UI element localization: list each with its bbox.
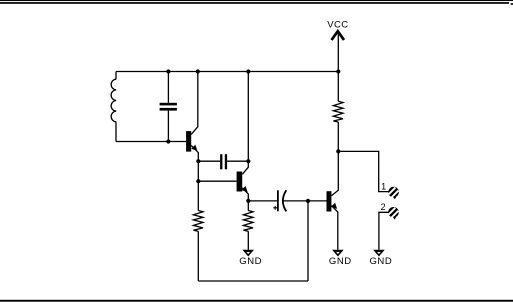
wire Q2 emitter to C3	[248, 200, 277, 202]
ground GND2	[329, 250, 352, 267]
node Q2 emitter junction	[246, 199, 250, 203]
transistor Q2 emitter arrow	[242, 187, 247, 192]
node Q1 collector rail	[196, 69, 200, 73]
wire J2 to ground	[379, 212, 389, 250]
transistor Q3 emitter arrow	[332, 204, 337, 209]
capacitor C2	[220, 154, 222, 169]
wire C2 right lead	[227, 160, 248, 162]
wire C1 bottom lead	[167, 111, 169, 142]
top border thick line	[0, 2, 509, 4]
wire Q1 emitter	[191, 145, 198, 161]
wire VCC stem	[337, 31, 339, 71]
capacitor C3 plus sign	[273, 206, 277, 210]
node Q1 emitter junction	[196, 159, 200, 163]
wire Q2 emitter	[242, 188, 248, 201]
node R3 bottom junction	[336, 149, 340, 153]
capacitor C3 positive plate	[277, 190, 279, 211]
wire R2 top lead	[247, 201, 249, 211]
wire top rail	[116, 71, 338, 73]
node Q3 base junction	[306, 199, 310, 203]
connector J2	[388, 207, 399, 220]
power VCC arrow	[332, 31, 345, 40]
node Q2 collector junction	[246, 159, 250, 163]
wire C1 top lead	[167, 72, 169, 103]
wire C2 left lead	[198, 160, 220, 162]
wire tank bottom / Q1 base	[116, 141, 186, 143]
inductor L1	[111, 79, 116, 122]
transistor Q2	[237, 172, 243, 192]
node C1 bottom	[166, 139, 170, 143]
resistor R3	[333, 101, 343, 122]
resistor R2	[243, 211, 253, 232]
wire R1 bottom lead	[197, 231, 199, 281]
transistor Q1 emitter arrow	[192, 145, 197, 150]
svg-text:GND: GND	[329, 256, 352, 267]
node Q2 collector rail	[246, 69, 250, 73]
top-right border artifact	[511, 3, 513, 5]
connector J1	[388, 187, 399, 200]
transistor Q1	[186, 131, 191, 152]
wire Q1 collector	[191, 72, 198, 135]
wire R3 bottom lead	[337, 122, 339, 151]
resistor R1	[193, 211, 203, 232]
wire tank left top	[115, 72, 117, 80]
wire output top	[338, 151, 389, 191]
wire feedback riser	[307, 201, 309, 281]
node C1 top	[166, 69, 170, 73]
wire Q3 emitter	[331, 206, 337, 250]
wire Q3 collector	[331, 151, 338, 195]
wire R2 bottom lead	[247, 231, 249, 250]
wire C3 right lead	[283, 200, 308, 202]
ground GND1	[239, 250, 262, 267]
node VCC rail junction	[336, 69, 340, 73]
svg-text:2: 2	[381, 202, 386, 212]
node Q2 base junction	[196, 179, 200, 183]
wire tank left bottom	[115, 122, 117, 142]
wire Q2 base	[198, 180, 236, 182]
transistor Q3	[327, 191, 332, 211]
wire Q2 collector	[242, 72, 248, 175]
svg-text:GND: GND	[239, 256, 262, 267]
capacitor C3 curved plate	[283, 190, 286, 211]
top border thin line	[0, 0, 513, 1]
wire Q3 base	[308, 200, 327, 202]
svg-text:1: 1	[381, 181, 386, 191]
wire R1 top lead	[197, 161, 199, 210]
capacitor C1	[160, 103, 177, 106]
ground GND3	[369, 250, 392, 267]
wire feedback bottom	[198, 280, 308, 282]
bottom border line	[0, 300, 513, 302]
svg-text:GND: GND	[369, 256, 392, 267]
wire R3 top lead	[337, 72, 339, 102]
